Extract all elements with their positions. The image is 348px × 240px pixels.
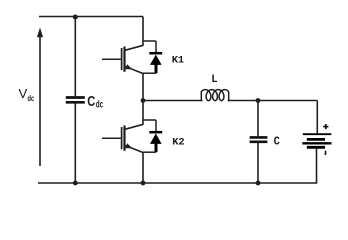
wire Cdc branch top	[74, 17, 76, 97]
wire capacitor C branch bottom	[257, 143, 259, 183]
svg-text:V: V	[19, 86, 28, 101]
wire top rail	[39, 16, 143, 18]
wire capacitor C branch top	[257, 101, 259, 137]
diode D2 of K2	[143, 120, 162, 152]
svg-text:K1: K1	[172, 55, 184, 67]
transistor Q1 IGBT of K1	[102, 45, 143, 73]
node top Cdc junction	[73, 15, 78, 20]
wire bottom rail	[38, 182, 317, 184]
capacitor C	[250, 137, 268, 141]
battery plus sign	[323, 124, 328, 129]
svg-text:L: L	[211, 74, 217, 86]
wire mid rail left of inductor	[143, 100, 203, 102]
wire mid rail right of inductor	[228, 100, 318, 102]
node capacitor C top junction	[256, 98, 261, 103]
wire Cdc branch bottom	[74, 104, 76, 184]
svg-text:dc: dc	[96, 100, 103, 111]
battery minus mark	[325, 151, 327, 155]
wire K2 collector	[142, 101, 144, 125]
wire battery branch top	[316, 101, 318, 135]
svg-text:dc: dc	[28, 94, 35, 103]
node bottom K2 junction	[141, 181, 146, 186]
svg-text:C: C	[274, 135, 281, 149]
wire K1 emitter to mid node	[142, 73, 144, 100]
svg-text:K2: K2	[172, 137, 184, 149]
capacitor Cdc	[66, 98, 85, 103]
wire K2 emitter to bottom rail	[142, 152, 144, 183]
node bottom Cdc junction	[73, 181, 78, 186]
voltage arrow Vdc	[37, 28, 43, 167]
label Vdc	[19, 86, 35, 103]
wire K1 collector	[142, 17, 144, 46]
inductor L	[201, 90, 228, 101]
transistor Q2 IGBT of K2	[102, 124, 143, 152]
svg-text:C: C	[87, 94, 95, 110]
wire battery branch bottom	[316, 148, 318, 184]
diode D1 of K1	[143, 41, 162, 73]
battery B1	[302, 134, 331, 147]
node capacitor C bottom junction	[256, 181, 261, 186]
node A midpoint junction	[141, 98, 146, 103]
label Cdc	[87, 94, 103, 111]
